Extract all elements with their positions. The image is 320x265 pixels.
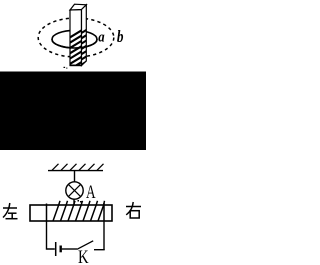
black band	[0, 72, 146, 151]
coil core box	[30, 205, 112, 221]
bar bottom edge	[70, 64, 82, 66]
hatch on right face	[79, 28, 89, 66]
coil windings	[47, 201, 105, 221]
ceiling hatch	[52, 164, 104, 171]
bar front face	[70, 10, 82, 66]
wire battery to switch	[62, 248, 77, 250]
wire ceiling to lamp	[74, 171, 76, 182]
lamp A	[66, 182, 83, 199]
svg-text:K: K	[78, 247, 89, 265]
svg-text:b: b	[117, 27, 124, 46]
battery short plate	[60, 246, 62, 253]
solid loop a	[52, 30, 97, 48]
label right	[126, 202, 141, 218]
wire coil left down	[47, 221, 55, 249]
dashed loop b	[38, 18, 114, 57]
label left	[3, 203, 18, 219]
bar silhouette (hides loops behind)	[70, 4, 86, 65]
ceiling line	[48, 170, 103, 172]
specks	[78, 200, 80, 202]
wire coil right down	[103, 221, 105, 250]
svg-text:a: a	[98, 29, 105, 45]
loop a front arc over bar	[52, 39, 97, 48]
bar top face	[70, 4, 86, 10]
bar right face	[82, 5, 87, 66]
switch right contact	[94, 249, 105, 251]
specks below bar	[64, 67, 66, 68]
battery long plate	[55, 242, 57, 256]
wire lamp to coil	[73, 199, 75, 205]
hatch on front face	[66, 28, 85, 71]
svg-text:A: A	[86, 182, 96, 203]
switch K blade	[77, 241, 93, 250]
